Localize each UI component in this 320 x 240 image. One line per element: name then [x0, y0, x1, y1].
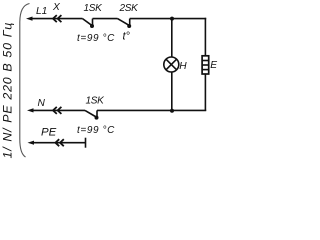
- switch 1SK-N riser: [96, 110, 98, 117]
- svg-text:X: X: [52, 2, 61, 13]
- switch 2SK riser: [129, 19, 131, 26]
- svg-text:L1: L1: [36, 6, 47, 17]
- wire bottom rail: [97, 109, 206, 111]
- connector N chevrons: [53, 107, 61, 114]
- junction node top: [170, 17, 174, 21]
- switch 2SK blade: [118, 19, 130, 26]
- wire lamp branch lower: [171, 72, 173, 110]
- arrow N: [27, 108, 34, 112]
- svg-text:t=99 °С: t=99 °С: [77, 33, 115, 44]
- heater element E: [202, 56, 209, 74]
- wire top rail to heater: [204, 18, 206, 56]
- switch 1SK-N contact dot: [95, 116, 99, 120]
- wire heater lower: [204, 74, 206, 111]
- lamp H: [164, 57, 179, 72]
- PE terminal bar: [85, 138, 87, 148]
- junction node bottom: [170, 109, 174, 113]
- wire L1: [31, 18, 83, 20]
- svg-text:1SK: 1SK: [86, 96, 106, 107]
- switch 1SK contact dot: [90, 24, 94, 28]
- switch 1SK blade: [83, 19, 92, 26]
- svg-text:t°: t°: [123, 31, 131, 43]
- wire top rail: [130, 18, 207, 20]
- svg-text:PE: PE: [41, 126, 57, 138]
- svg-text:1SK: 1SK: [84, 3, 104, 14]
- wire PE: [33, 142, 86, 144]
- switch 2SK contact dot: [127, 24, 131, 28]
- svg-text:N: N: [38, 98, 46, 109]
- supply bracket: [20, 4, 30, 158]
- wire between switches: [93, 18, 118, 20]
- svg-text:H: H: [179, 61, 187, 72]
- switch 1SK riser: [92, 19, 94, 26]
- wire N: [32, 109, 85, 111]
- arrow L1: [26, 17, 33, 21]
- switch 1SK-N blade: [85, 110, 96, 117]
- arrow PE: [28, 141, 35, 145]
- wire lamp branch upper: [171, 19, 173, 57]
- svg-text:1/ N/ PE 220 В 50 Гц: 1/ N/ PE 220 В 50 Гц: [0, 22, 14, 159]
- connector PE chevrons: [55, 139, 63, 146]
- svg-text:t=99 °С: t=99 °С: [77, 125, 115, 136]
- svg-text:E: E: [210, 60, 217, 71]
- connector X chevrons: [53, 15, 61, 22]
- svg-text:2SK: 2SK: [119, 3, 140, 14]
